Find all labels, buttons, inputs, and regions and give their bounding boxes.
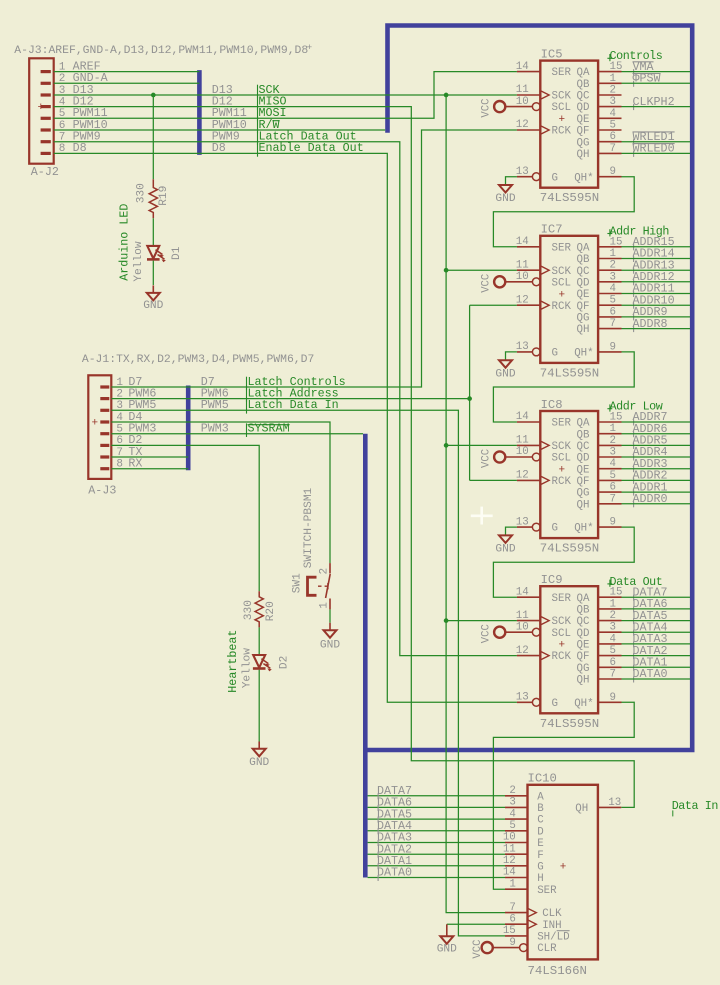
svg-text:QF: QF [577,651,590,663]
svg-text:Addr High: Addr High [610,224,670,238]
svg-text:SER: SER [552,242,572,254]
shift register IC10 74LS166N [503,772,621,978]
svg-text:SCK: SCK [552,91,572,103]
svg-text:13: 13 [608,797,621,809]
svg-text:13: 13 [516,341,529,353]
wire net Latch Controls [188,130,517,387]
svg-text:+: + [559,465,566,477]
wire net DATA4 from bus to IC10 [368,830,505,832]
svg-text:330: 330 [243,600,255,620]
svg-text:E: E [537,838,543,850]
svg-text:74LS595N: 74LS595N [540,366,600,380]
svg-text:A-J1:TX,RX,D2,PWM3,D4,PWM5,PWM: A-J1:TX,RX,D2,PWM3,D4,PWM5,PWM6,D7 [82,354,314,366]
svg-text:11: 11 [516,435,529,447]
svg-text:74LS595N: 74LS595N [540,542,600,556]
wire net SCK [199,93,517,913]
svg-text:13: 13 [516,166,529,178]
wire net ADDR14 to bus [622,258,691,260]
svg-text:SCK: SCK [552,616,572,628]
svg-text:QA: QA [577,67,590,79]
svg-text:SW1: SW1 [291,573,303,593]
svg-text:VCC: VCC [481,99,493,118]
wire A-J3 pin 7 (TX) [111,456,188,458]
wire A-J3 pin 3 (PWM5) [111,409,188,411]
svg-text:10: 10 [516,271,529,283]
svg-text:2: 2 [319,568,331,575]
svg-text:QF: QF [577,476,590,488]
svg-text:A-J2: A-J2 [31,165,59,179]
svg-text:12: 12 [516,119,529,131]
ground at IC5 pin 13 [495,185,515,205]
svg-text:+: + [559,640,566,652]
wire net D4 to switch SW1 [188,422,330,563]
wire net ADDR3 to bus [622,468,691,470]
svg-text:QG: QG [577,488,590,500]
wire net DATA1 from bus to IC10 [368,865,505,867]
svg-text:5: 5 [610,295,616,307]
net group title Controls [607,49,662,63]
svg-text:SCK: SCK [552,441,572,453]
label net Data In [672,799,718,817]
wire net DATA0 from bus to IC10 [368,877,505,879]
svg-text:2: 2 [610,435,616,447]
svg-text:QA: QA [577,242,590,254]
svg-text:14: 14 [516,411,529,423]
svg-text:GND: GND [495,193,515,205]
wire A-J2 pin 8 (D8) [54,152,200,154]
svg-text:IC8: IC8 [541,398,563,412]
svg-text:B: B [537,803,544,815]
wire net SYSRAM to bus [188,433,363,435]
svg-text:QF: QF [577,301,590,313]
svg-text:SCL: SCL [552,628,571,640]
shift register IC9 74LS595N [505,573,622,731]
svg-text:GND: GND [143,300,163,312]
svg-text:H: H [537,873,543,885]
svg-text:7: 7 [610,669,616,681]
wire net DATA0 to bus [622,678,691,680]
label A-J3 header [82,354,314,366]
svg-text:13: 13 [516,692,529,704]
wire net Latch Data In [188,410,505,936]
svg-text:GND: GND [495,368,515,380]
svg-text:GND: GND [249,757,269,769]
shift register IC8 74LS595N [505,398,622,556]
wire A-J3 pin 6 (D2) [111,444,188,446]
svg-text:QA: QA [577,418,590,430]
ground below D2 [249,742,269,769]
svg-text:SCL: SCL [552,277,571,289]
svg-text:G: G [552,348,558,360]
svg-text:3: 3 [610,271,616,283]
svg-text:14: 14 [516,236,529,248]
svg-text:12: 12 [516,645,529,657]
svg-text:2: 2 [610,610,616,622]
svg-text:QF: QF [577,126,590,138]
switch SW1 SWITCH-PBSM1 [291,487,331,609]
wire net ADDR13 to bus [622,269,691,271]
svg-text:11: 11 [516,259,529,271]
wire A-J2 pin 4 (D12) [54,106,200,108]
svg-text:D2: D2 [278,656,290,669]
svg-text:QG: QG [577,137,590,149]
ground below SW1 [320,623,340,652]
svg-text:+: + [560,862,567,874]
net group title Addr Low [607,400,662,414]
svg-text:10: 10 [516,96,529,108]
svg-text:Data In: Data In [672,799,718,813]
svg-text:11: 11 [516,84,529,96]
svg-text:330: 330 [135,183,147,203]
svg-text:13: 13 [516,516,529,528]
wire A-J2 pin 3 (D13) [54,94,200,96]
svg-text:QG: QG [577,663,590,675]
svg-text:7: 7 [610,143,616,155]
svg-text:6: 6 [610,306,616,318]
output net labels IC7 [633,235,675,332]
wire A-J3 pin 5 (PWM3) [111,433,188,435]
wire A-J3 pin 2 (PWM6) [111,398,188,400]
svg-text:QH: QH [577,149,590,161]
svg-text:4: 4 [610,283,616,295]
svg-text:SER: SER [537,885,557,897]
svg-text:3: 3 [610,622,616,634]
svg-text:QH*: QH* [574,348,593,360]
svg-text:QA: QA [577,593,590,605]
connector A-J3 [88,375,116,497]
svg-text:QB: QB [577,254,590,266]
svg-text:1: 1 [319,602,331,609]
svg-text:12: 12 [516,470,529,482]
net name labels right of A-J2 bus [212,83,364,157]
svg-text:7: 7 [610,318,616,330]
node D13 junction [151,93,156,98]
svg-text:A: A [537,791,544,803]
svg-text:QH: QH [575,803,588,815]
svg-text:QD: QD [577,277,590,289]
svg-text:4: 4 [610,108,616,120]
wire D13 to R19 [152,95,154,179]
svg-text:4: 4 [610,633,616,645]
svg-text:Addr Low: Addr Low [610,400,663,414]
wire net ADDR0 to bus [622,503,691,505]
svg-text:12: 12 [516,294,529,306]
wire R19 to D1 [152,218,154,246]
svg-text:QE: QE [577,289,590,301]
LED D2 (Heartbeat, Yellow) [226,630,290,693]
svg-text:RCK: RCK [552,126,572,138]
wire net Enable Data Out [199,153,517,702]
svg-text:QB: QB [577,429,590,441]
svg-text:SCL: SCL [552,102,571,114]
bus stub at connector A-J2 [197,70,202,155]
svg-text:QH: QH [577,324,590,336]
svg-text:IC5: IC5 [541,47,563,61]
svg-text:QD: QD [577,453,590,465]
svg-text:SCL: SCL [552,453,571,465]
svg-text:14: 14 [516,586,529,598]
VCC at IC10 [472,940,519,959]
svg-text:QG: QG [577,313,590,325]
svg-text:QD: QD [577,628,590,640]
svg-text:A-J3:AREF,GND-A,D13,D12,PWM11,: A-J3:AREF,GND-A,D13,D12,PWM11,PWM10,PWM9… [14,45,308,57]
svg-text:D1: D1 [171,246,183,260]
svg-text:QH: QH [577,675,590,687]
ground at IC8 pin 13 [495,535,515,555]
svg-text:QB: QB [577,79,590,91]
wire IC8 QH* to IC9 SER [493,527,634,597]
svg-text:1: 1 [610,423,616,435]
shift register IC5 74LS595N [505,47,622,205]
wire net ADDR9 to bus [622,316,691,318]
svg-text:QH: QH [577,499,590,511]
VCC at IC9 [481,624,506,643]
wire net ADDR15 to bus [622,246,691,248]
svg-text:+: + [559,114,566,126]
svg-text:+: + [92,418,99,430]
connector A-J2 [29,58,59,179]
wire net DATA7 from bus to IC10 [368,795,505,797]
svg-text:Yellow: Yellow [133,241,145,282]
wire A-J2 pin 1 (AREF) [54,71,200,73]
wire net ADDR8 to bus [622,328,691,330]
svg-text:10: 10 [516,446,529,458]
svg-text:7: 7 [610,493,616,505]
wire net ADDR7 to bus [622,421,691,423]
svg-text:QH*: QH* [574,523,593,535]
svg-text:C: C [537,815,544,827]
wire A-J2 pin 5 (PWM11) [54,117,200,119]
svg-text:VCC: VCC [481,274,493,293]
wire net ADDR11 to bus [622,293,691,295]
svg-text:SCK: SCK [552,266,572,278]
svg-text:VCC: VCC [472,940,484,959]
wire net ADDR4 to bus [622,456,691,458]
svg-text:6: 6 [610,482,616,494]
bus stub at connector A-J3 [186,386,191,471]
wire net D2 to R20 [188,445,259,591]
svg-text:GND: GND [495,544,515,556]
wire D2 to ground [258,670,260,742]
svg-text:SH/LD: SH/LD [537,932,569,944]
svg-text:QC: QC [577,616,590,628]
wire net DATA3 from bus to IC10 [368,842,505,844]
output net labels IC8 [633,410,668,507]
wire net MOSI [199,72,517,119]
wire net Latch Data Out [199,142,517,656]
bus left vertical (SYSRAM/DATA section) [363,434,368,878]
svg-text:RCK: RCK [552,476,572,488]
svg-text:QE: QE [577,640,590,652]
svg-text:Heartbeat: Heartbeat [226,630,240,693]
svg-text:G: G [552,698,558,710]
svg-text:GND: GND [320,639,340,651]
wire net DATA7 to bus [622,596,691,598]
svg-text:9: 9 [610,166,616,178]
wire net R/W to bus [199,129,385,131]
svg-text:QB: QB [577,605,590,617]
svg-text:A-J3: A-J3 [88,483,116,497]
svg-text:1: 1 [610,73,616,85]
ground at IC10 INH [437,924,457,955]
wire net Latch Address [188,305,517,480]
svg-text:VCC: VCC [481,624,493,643]
net group title Addr High [607,224,669,238]
svg-text:RCK: RCK [552,301,572,313]
svg-text:74LS166N: 74LS166N [528,964,588,978]
svg-text:Controls: Controls [610,49,663,63]
wire net DATA2 from bus to IC10 [368,853,505,855]
svg-text:INH: INH [542,920,561,932]
svg-text:SWITCH-PBSM1: SWITCH-PBSM1 [303,487,315,568]
wire A-J3 pin 1 (D7) [111,386,188,388]
svg-text:QD: QD [577,102,590,114]
input net labels IC10 [377,784,412,881]
wire net DATA4 to bus [622,631,691,633]
svg-text:SER: SER [552,67,572,79]
pin numbers / names A-J3 [116,375,156,471]
svg-text:RCK: RCK [552,651,572,663]
svg-text:QC: QC [577,266,590,278]
wire net ΦPSW to bus [622,82,691,84]
wire net WRLED0 to bus [622,152,691,154]
bus main (top / right / bottom) [365,26,692,751]
cursor crosshair [471,507,493,525]
svg-text:+: + [307,42,313,53]
wire net MISO / Data In [199,107,634,808]
label A-J2 header [14,42,312,57]
svg-text:IC9: IC9 [541,573,563,587]
wire IC7 QH* to IC8 SER [493,352,634,422]
wire net VMA to bus [622,71,691,73]
svg-text:10: 10 [516,621,529,633]
wire net DATA6 from bus to IC10 [368,806,505,808]
wire A-J2 pin 6 (PWM10) [54,129,200,131]
resistor R19 330 [135,179,170,218]
wire IC10 INH to ground [447,923,505,925]
svg-text:2: 2 [610,260,616,272]
ground at IC7 pin 13 [495,360,515,380]
wire net WRLED1 to bus [622,141,691,143]
svg-text:DATA0: DATA0 [377,866,412,880]
wire net DATA1 to bus [622,666,691,668]
svg-text:Arduino LED: Arduino LED [118,204,132,281]
wire D1 to ground [152,261,154,285]
svg-text:QC: QC [577,91,590,103]
svg-text:QC: QC [577,441,590,453]
wire net DATA2 to bus [622,655,691,657]
svg-text:Yellow: Yellow [241,648,253,689]
svg-text:F: F [537,850,543,862]
wire net ADDR6 to bus [622,433,691,435]
svg-text:SER: SER [552,593,572,605]
svg-text:QH*: QH* [574,172,593,184]
shift register IC7 74LS595N [505,223,622,381]
wire net DATA3 to bus [622,643,691,645]
svg-text:4: 4 [610,458,616,470]
svg-text:CLR: CLR [537,943,557,955]
wire A-J3 pin 8 (RX) [111,468,188,470]
wire net ADDR2 to bus [622,479,691,481]
wire IC5 G to ground [506,177,517,185]
svg-text:IC7: IC7 [541,223,563,237]
wire net DATA5 from bus to IC10 [368,818,505,820]
svg-text:+: + [559,289,566,301]
svg-text:9: 9 [610,341,616,353]
svg-text:9: 9 [610,692,616,704]
svg-text:74LS595N: 74LS595N [540,191,600,205]
wire SW1 to ground [329,609,331,622]
VCC at IC7 [481,274,506,293]
svg-text:R20: R20 [265,601,277,621]
wire net DATA5 to bus [622,620,691,622]
svg-text:5: 5 [610,470,616,482]
svg-text:6: 6 [610,657,616,669]
resistor R20 330 [243,591,277,627]
wire A-J2 pin 7 (PWM9) [54,141,200,143]
svg-text:G: G [537,861,543,873]
svg-text:QE: QE [577,464,590,476]
svg-text:6: 6 [610,131,616,143]
svg-text:R19: R19 [158,186,170,206]
ground below D1 [143,285,163,312]
svg-text:14: 14 [516,61,529,73]
pin numbers / names A-J2 [59,59,109,155]
svg-text:5: 5 [610,120,616,132]
svg-text:G: G [552,523,558,535]
LED D1 (Arduino LED, Yellow) [118,204,184,282]
VCC at IC8 [481,449,506,468]
svg-text:G: G [552,172,558,184]
svg-text:GND: GND [437,944,457,956]
svg-text:3: 3 [610,447,616,459]
svg-text:IC10: IC10 [528,772,557,786]
svg-text:Data Out: Data Out [610,575,663,589]
svg-text:D: D [537,826,543,838]
output net labels IC9 [633,585,668,682]
output net labels IC5 [633,60,675,157]
svg-text:74LS595N: 74LS595N [540,717,600,731]
svg-text:VCC: VCC [481,449,493,468]
svg-text:1: 1 [610,598,616,610]
svg-text:5: 5 [610,645,616,657]
wire R20 to D2 [258,627,260,655]
wire net ADDR1 to bus [622,491,691,493]
svg-text:11: 11 [516,610,529,622]
net group title Data Out [607,575,662,589]
net name labels right of A-J3 bus [201,375,346,437]
wire net ADDR12 to bus [622,281,691,283]
svg-text:2: 2 [610,85,616,97]
wire net ADDR5 to bus [622,444,691,446]
wire IC9 QH* to IC10 SER [493,702,634,889]
svg-text:QE: QE [577,114,590,126]
wire net DATA6 to bus [622,608,691,610]
wire A-J3 pin 4 (D4) [111,421,188,423]
svg-text:CLK: CLK [542,908,562,920]
svg-text:+: + [38,102,45,114]
svg-text:QH*: QH* [574,698,593,710]
svg-text:SER: SER [552,418,572,430]
wire net ADDR10 to bus [622,304,691,306]
wire IC8 G to ground [506,527,517,535]
wire A-J2 pin 2 (GND-A) [54,82,200,84]
svg-text:1: 1 [610,248,616,260]
svg-text:3: 3 [610,96,616,108]
VCC at IC5 [481,99,506,118]
svg-text:9: 9 [610,517,616,529]
wire net CLKPH2 to bus [622,106,691,108]
